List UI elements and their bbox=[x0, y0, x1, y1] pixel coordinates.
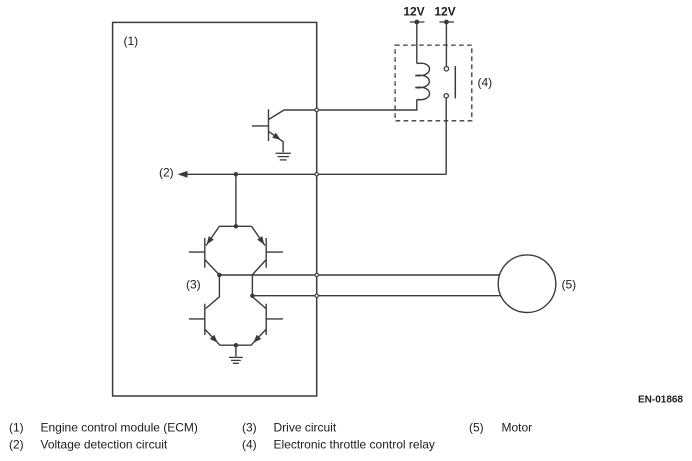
ground G1 bbox=[276, 153, 291, 160]
arrowhead (2) bbox=[178, 171, 188, 178]
transistor Q3 (upper right) bbox=[252, 226, 283, 295]
wire voltage detection line with arrow bbox=[186, 173, 446, 175]
junction node B bbox=[217, 273, 222, 278]
junction node A bbox=[234, 172, 239, 177]
motor M (5) bbox=[498, 255, 556, 313]
pin circle motor lead 2 bbox=[315, 294, 318, 297]
12V supply terminal T2 bbox=[434, 5, 455, 67]
pin circle motor lead 1 bbox=[315, 273, 318, 276]
svg-text:(4): (4) bbox=[478, 76, 493, 90]
wire motor lead 2 bbox=[252, 295, 505, 297]
wire node B to Q4 collector bbox=[206, 275, 220, 309]
svg-text:(2): (2) bbox=[159, 166, 174, 180]
relay dashed box bbox=[395, 45, 472, 121]
pin circle detection wire at ECM edge bbox=[315, 173, 318, 176]
wire Q1 emitter to ground bbox=[282, 141, 284, 152]
transistor Q1 bbox=[252, 109, 284, 142]
transistor Q5 (lower right) bbox=[236, 296, 283, 346]
svg-text:(1): (1) bbox=[124, 34, 139, 48]
svg-text:12V: 12V bbox=[403, 5, 424, 19]
junction bottom of H-bridge bbox=[234, 343, 239, 348]
ECM box (engine control module) bbox=[113, 22, 317, 396]
12V supply terminal T1 bbox=[403, 5, 424, 64]
ground G2 bbox=[229, 357, 243, 363]
svg-text:(1): (1) bbox=[9, 421, 24, 435]
relay switch output wire bbox=[445, 98, 447, 174]
relay contact top bbox=[444, 67, 448, 71]
relay contact bottom bbox=[444, 94, 448, 98]
svg-text:Drive circuit: Drive circuit bbox=[274, 421, 337, 435]
wire H-bridge top rail bbox=[219, 225, 251, 227]
svg-text:Motor: Motor bbox=[502, 421, 533, 435]
wire Q1 collector to relay coil bbox=[284, 100, 417, 111]
transistor Q2 (upper left) bbox=[189, 226, 220, 275]
svg-text:EN-01868: EN-01868 bbox=[638, 395, 683, 406]
svg-text:(2): (2) bbox=[9, 438, 24, 452]
junction node C bbox=[250, 293, 255, 298]
wire to ground G2 bbox=[235, 345, 237, 356]
relay armature bar bbox=[454, 66, 456, 98]
transistor Q4 (lower left) bbox=[189, 304, 236, 346]
svg-text:Engine control module (ECM): Engine control module (ECM) bbox=[41, 421, 198, 435]
relay coil L1 bbox=[415, 63, 429, 100]
wire motor lead 1 bbox=[219, 274, 505, 276]
wire node A to drive circuit bbox=[235, 174, 237, 226]
junction top of H-bridge bbox=[234, 224, 239, 229]
pin circle coil wire at ECM edge bbox=[315, 108, 318, 111]
svg-text:(5): (5) bbox=[562, 278, 577, 292]
svg-text:12V: 12V bbox=[434, 5, 455, 19]
svg-text:Electronic throttle control re: Electronic throttle control relay bbox=[274, 438, 435, 452]
svg-text:(4): (4) bbox=[242, 438, 257, 452]
svg-text:(3): (3) bbox=[186, 278, 201, 292]
svg-text:(5): (5) bbox=[469, 421, 484, 435]
svg-text:Voltage detection circuit: Voltage detection circuit bbox=[41, 438, 168, 452]
svg-text:(3): (3) bbox=[242, 421, 257, 435]
